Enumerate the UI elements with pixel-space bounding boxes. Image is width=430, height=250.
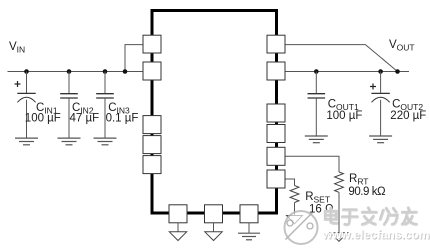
- ground arrow under RSET: [287, 216, 303, 224]
- ground arrow under RRT: [330, 233, 347, 242]
- svg-text:47 µF: 47 µF: [70, 112, 100, 124]
- pin box right 2: [267, 62, 285, 80]
- node junction dot COUT1: [314, 69, 319, 74]
- node junction dot CIN2: [67, 69, 72, 74]
- svg-text:RRT: RRT: [349, 173, 369, 187]
- glyph dian: [325, 208, 337, 223]
- wire bottom pin3 lead: [248, 223, 250, 233]
- svg-text:100 µF: 100 µF: [25, 112, 61, 124]
- node junction dot COUT2: [378, 69, 383, 74]
- svg-text:www.elecfans.com: www.elecfans.com: [322, 227, 430, 241]
- pin box left 2: [143, 62, 161, 80]
- watermark logo circle: [285, 211, 318, 244]
- glyph you: [402, 208, 416, 225]
- svg-text:VOUT: VOUT: [389, 39, 415, 53]
- resistor RSET: [290, 186, 299, 203]
- IC U1 outline: [152, 11, 277, 214]
- pin box right 1: [267, 35, 285, 53]
- capacitor CIN3: [96, 72, 114, 139]
- resistor RRT: [335, 172, 344, 192]
- node junction dot pin route: [123, 69, 128, 74]
- pin box bottom 2: [205, 205, 223, 223]
- svg-text:220 µF: 220 µF: [390, 110, 426, 122]
- ground under CIN1: [15, 138, 38, 145]
- pin box bottom 1: [169, 205, 187, 223]
- ground under bottom pin3: [238, 233, 260, 240]
- glyph shao: [380, 208, 397, 224]
- wire bottom pin2 lead: [213, 223, 215, 232]
- capacitor COUT1: [308, 72, 326, 136]
- pin box right 4: [267, 125, 285, 143]
- pin box right 6: [267, 170, 285, 188]
- node junction dot VOUT: [395, 69, 400, 74]
- capacitor COUT2 polarized: [370, 72, 390, 136]
- svg-text:90.9 kΩ: 90.9 kΩ: [348, 186, 386, 198]
- pin box left 4: [143, 136, 161, 154]
- pin box right 5: [267, 147, 285, 165]
- svg-text:100 µF: 100 µF: [326, 110, 362, 122]
- wire RSET lead down: [294, 203, 296, 216]
- ground arrow under bottom pin1: [169, 232, 186, 241]
- capacitor CIN1 polarized: [15, 72, 36, 139]
- pin box left 1: [143, 35, 161, 53]
- ground under CIN2: [58, 138, 81, 145]
- node junction dot CIN3: [103, 69, 108, 74]
- wire RRT route: [286, 156, 340, 172]
- pin box left 3: [143, 116, 161, 134]
- svg-text:0.1 µF: 0.1 µF: [106, 112, 139, 124]
- node junction dot CIN1: [24, 69, 29, 74]
- glyph fa: [362, 208, 376, 225]
- wire RSET route: [286, 179, 295, 186]
- wire input rail: [8, 71, 144, 73]
- glyph zi: [342, 210, 357, 225]
- ground under CIN3: [94, 138, 117, 145]
- wire vout pin route: [286, 45, 398, 72]
- watermark chinese text (drawn strokes, low contrast): [325, 208, 416, 225]
- svg-text:RSET: RSET: [305, 191, 330, 205]
- ground under COUT1: [305, 136, 328, 143]
- ground under COUT2: [369, 136, 392, 143]
- ground arrow under bottom pin2: [205, 232, 222, 241]
- watermark url text: [322, 227, 430, 242]
- pin box right 3: [267, 104, 285, 122]
- wire RRT lead down: [338, 192, 340, 233]
- node VIN label: [9, 41, 25, 55]
- capacitor CIN2: [60, 72, 78, 139]
- pin box left 5: [143, 156, 161, 174]
- wire bottom pin1 lead: [177, 223, 179, 232]
- wire output rail: [286, 71, 410, 73]
- wire vin pin1 route: [125, 45, 143, 72]
- pin box bottom 3: [240, 205, 258, 223]
- svg-text:VIN: VIN: [9, 41, 25, 55]
